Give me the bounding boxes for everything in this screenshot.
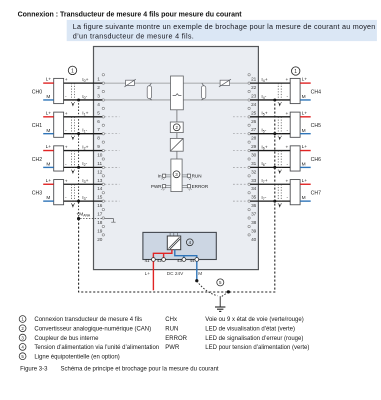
internal wire terminal 1 to MUX [104, 82, 170, 84]
wire to bus coupler [176, 151, 178, 159]
wire L+ CH3 [43, 178, 54, 184]
svg-text:CH0: CH0 [32, 89, 42, 95]
svg-text:1: 1 [294, 69, 297, 75]
svg-text:18: 18 [97, 220, 103, 225]
svg-text:In: In [158, 173, 162, 178]
svg-text:27: 27 [251, 127, 257, 132]
svg-text:LED de signalisation d’erreur: LED de signalisation d’erreur (rouge) [205, 336, 303, 342]
svg-text:3: 3 [97, 94, 100, 99]
svg-text:L+: L+ [302, 178, 308, 184]
shield arrow CH1 [72, 137, 74, 140]
svg-text:19: 19 [97, 228, 103, 233]
svg-text:14: 14 [97, 186, 103, 191]
svg-text:31: 31 [251, 161, 257, 166]
shield pair CH4 [278, 83, 281, 103]
attenuator/filter left [124, 79, 135, 87]
svg-text:43: 43 [177, 258, 182, 263]
svg-text:I6+: I6+ [261, 144, 267, 150]
svg-text:36: 36 [251, 203, 257, 208]
svg-text:M: M [302, 195, 306, 201]
wire L+ CH6 [300, 144, 311, 150]
svg-text:I7+: I7+ [261, 178, 267, 184]
svg-text:I5+: I5+ [261, 111, 267, 117]
junction node CH7 minus [273, 200, 276, 203]
node M tap [195, 279, 198, 282]
svg-text:I4-: I4- [261, 94, 266, 100]
wire M CH4 [300, 94, 311, 100]
svg-text:25: 25 [251, 110, 257, 115]
svg-text:CH2: CH2 [32, 157, 42, 163]
svg-text:30: 30 [251, 153, 257, 158]
svg-text:DC 24V: DC 24V [167, 271, 184, 276]
svg-text:I3+: I3+ [82, 178, 88, 184]
svg-text:I0-: I0- [82, 94, 87, 100]
wire I7+ to terminal 33 [250, 178, 290, 184]
svg-text:I0+: I0+ [82, 77, 88, 83]
wire to ADC [176, 133, 178, 139]
svg-text:I1-: I1- [82, 127, 87, 133]
svg-text:7: 7 [97, 127, 100, 132]
terminals 21-40 with pin numbers (right column) [251, 77, 257, 242]
svg-text:CH6: CH6 [311, 157, 321, 163]
junction node CH6 minus [273, 166, 276, 169]
shield pair CH6 [278, 151, 281, 171]
wire M CH1 [43, 128, 54, 134]
svg-text:L+: L+ [46, 178, 52, 184]
wire L+ CH1 [43, 110, 54, 116]
power unit pins [170, 233, 177, 236]
svg-text:44: 44 [190, 258, 195, 263]
svg-text:5: 5 [97, 110, 100, 115]
svg-text:RUN: RUN [192, 173, 202, 178]
svg-text:Connexion : Transducteur de me: Connexion : Transducteur de mesure 4 fil… [18, 12, 243, 19]
shield arrow CH6 [279, 171, 281, 174]
shield pair CH0 [71, 83, 74, 103]
input capacitor left [147, 83, 152, 100]
internal wire MUX to terminal 21 [183, 82, 248, 84]
svg-text:CH7: CH7 [311, 191, 321, 197]
legend [19, 316, 309, 361]
svg-text:24: 24 [251, 102, 257, 107]
svg-text:Figure 3-3: Figure 3-3 [20, 367, 48, 373]
transducer CH1 [32, 112, 68, 137]
svg-text:L+: L+ [302, 110, 308, 116]
svg-text:CH1: CH1 [32, 123, 42, 129]
wire I4- to terminal 23 [250, 94, 290, 100]
svg-text:42: 42 [157, 258, 162, 263]
svg-text:M: M [46, 195, 50, 201]
svg-text:8: 8 [97, 136, 100, 141]
svg-text:Coupleur de bus interne: Coupleur de bus interne [34, 336, 99, 342]
svg-text:Ligne équipotentielle (en opti: Ligne équipotentielle (en option) [34, 354, 119, 360]
junction node CH0 minus [77, 98, 80, 101]
wire I6+ to terminal 29 [250, 144, 290, 150]
wire I5+ to terminal 25 [250, 111, 290, 117]
svg-text:I7-: I7- [261, 195, 266, 201]
module box (analog input module) [94, 47, 259, 270]
junction node CH1 minus [77, 132, 80, 135]
svg-text:40: 40 [251, 237, 257, 242]
svg-text:d’un transducteur de mesure 4: d’un transducteur de mesure 4 fils. [73, 31, 194, 40]
svg-text:LED pour tension d’alimentatio: LED pour tension d’alimentation (verte) [205, 345, 309, 351]
svg-text:M: M [46, 94, 50, 100]
svg-text:I2+: I2+ [82, 144, 88, 150]
internal wire terminal 3 to MUX [104, 99, 170, 101]
internal dotted stubs rows 5-15 [105, 117, 120, 201]
shield pair CH1 [71, 117, 74, 137]
svg-text:16: 16 [97, 203, 103, 208]
junction node CH3 minus [77, 200, 80, 203]
svg-text:2: 2 [97, 85, 100, 90]
svg-text:L+: L+ [46, 77, 52, 83]
wire M CH5 [300, 128, 311, 134]
wire L+ internal (red) to terminals 41/42 [153, 250, 172, 258]
wire I3+ to terminal 13 [64, 178, 103, 184]
transducer CH7 [285, 179, 321, 204]
svg-text:L+: L+ [46, 144, 52, 150]
wire I0+ to terminal 1 [64, 77, 103, 83]
label DC 24V [145, 271, 203, 276]
wire I1+ to terminal 5 [64, 111, 103, 117]
wire I2- to terminal 11 [64, 161, 103, 167]
svg-text:CHx: CHx [165, 317, 177, 323]
svg-text:37: 37 [251, 212, 257, 217]
svg-text:23: 23 [251, 94, 257, 99]
node +M_ANA [76, 212, 102, 221]
svg-text:M: M [46, 162, 50, 168]
note highlight box [67, 20, 377, 41]
svg-text:CH4: CH4 [311, 89, 321, 95]
svg-text:I3-: I3- [82, 195, 87, 201]
shield pair CH2 [71, 151, 74, 171]
shield pair CH7 [278, 184, 281, 204]
wire L+ supply (red) [152, 261, 154, 290]
svg-text:26: 26 [251, 119, 257, 124]
transducer CH6 [285, 146, 321, 171]
svg-text:I5-: I5- [261, 127, 266, 133]
svg-text:ERROR: ERROR [165, 336, 187, 342]
svg-text:I2-: I2- [82, 161, 87, 167]
svg-text:20: 20 [97, 237, 103, 242]
svg-text:6: 6 [97, 119, 100, 124]
equipotential line (optional) left/bottom/right [79, 100, 275, 292]
node ground tap on equipotential [227, 290, 230, 293]
svg-text:CH5: CH5 [311, 123, 321, 129]
svg-text:1: 1 [71, 68, 74, 74]
LED RUN [182, 173, 201, 180]
power supply sub-box [143, 232, 216, 259]
shield pair CH5 [278, 117, 281, 137]
svg-text:4: 4 [97, 102, 100, 107]
transducer CH3 [32, 179, 68, 204]
svg-text:La figure suivante montre un e: La figure suivante montre un exemple de … [73, 22, 376, 31]
wire I7- to terminal 35 [250, 195, 290, 201]
power converter U4 [167, 236, 180, 250]
svg-text:I1+: I1+ [82, 111, 88, 117]
input capacitor right [201, 83, 205, 100]
svg-text:22: 22 [251, 85, 257, 90]
wire M CH3 [43, 195, 54, 201]
svg-text:11: 11 [97, 161, 102, 166]
wire I4+ to terminal 21 [250, 77, 290, 83]
circled 5 [217, 279, 224, 286]
wire MUX to ADC stage [176, 110, 178, 122]
shield arrow CH2 [72, 171, 74, 174]
shield pair CH3 [71, 184, 74, 204]
ground [215, 296, 225, 311]
terminals 1-20 with pin numbers (left column) [97, 77, 103, 242]
LED ERROR [182, 184, 209, 191]
svg-text:32: 32 [251, 169, 257, 174]
wire I6- to terminal 31 [250, 161, 290, 167]
svg-text:29: 29 [251, 144, 257, 149]
svg-text:1: 1 [97, 77, 100, 82]
wire M CH6 [300, 162, 311, 168]
svg-text:Convertisseur analogique-numér: Convertisseur analogique-numérique (CAN) [34, 327, 151, 333]
LED PWR [151, 184, 171, 191]
shield arrow CH0 [72, 103, 74, 106]
svg-text:PWR: PWR [165, 345, 180, 351]
svg-text:38: 38 [251, 220, 257, 225]
transducer CH4 [285, 78, 321, 103]
ground connection dashed [197, 281, 229, 296]
ADC box [170, 138, 183, 151]
svg-text:L+: L+ [302, 144, 308, 150]
svg-text:M: M [302, 94, 306, 100]
shield arrow CH4 [279, 103, 281, 106]
junction node CH5 minus [273, 132, 276, 135]
multiplexer/amplifier U1 [171, 76, 184, 110]
wire L+ CH0 [43, 77, 54, 83]
attenuator/filter right [219, 79, 231, 87]
shield arrow CH5 [279, 137, 281, 140]
svg-text:M: M [302, 128, 306, 134]
wire M CH2 [43, 162, 54, 168]
svg-text:ERROR: ERROR [192, 184, 209, 189]
svg-text:LED de visualisation d’état (v: LED de visualisation d’état (verte) [205, 327, 295, 333]
wire M CH7 [300, 195, 311, 201]
svg-text:Schéma de principe et brochage: Schéma de principe et brochage pour la m… [61, 367, 219, 373]
shield arrow CH3 [72, 205, 74, 208]
wire M CH0 [43, 94, 54, 100]
svg-text:39: 39 [251, 228, 257, 233]
internal dotted stubs rows 25-35 [233, 117, 248, 201]
svg-text:Tension d’alimentation via l’u: Tension d’alimentation via l’unité d’ali… [34, 345, 159, 351]
circled 1 left [68, 66, 76, 74]
wire L+ CH2 [43, 144, 54, 150]
svg-text:RUN: RUN [165, 327, 178, 333]
circled 1 right [292, 67, 300, 75]
shield terminal symbol row 18 [105, 219, 116, 223]
transducer CH0 [32, 78, 68, 103]
svg-text:17: 17 [97, 212, 103, 217]
svg-text:L+: L+ [46, 110, 52, 116]
transducer CH2 [32, 146, 68, 171]
transducer CH5 [285, 112, 321, 137]
terminals 41 42 43 44 [145, 258, 199, 263]
svg-text:Connexion transducteur de mesu: Connexion transducteur de mesure 4 fils [34, 317, 142, 323]
wire L+ CH5 [300, 110, 311, 116]
wire I5- to terminal 27 [250, 127, 290, 133]
svg-text:L+: L+ [302, 77, 308, 83]
internal wire MUX to terminal 23 [183, 99, 248, 101]
junction node CH2 minus [77, 166, 80, 169]
circled 4 [186, 239, 193, 246]
svg-text:Voie ou 9 x état de voie (vert: Voie ou 9 x état de voie (verte/rouge) [205, 317, 303, 323]
LED In (left) [158, 173, 171, 180]
svg-text:M: M [302, 162, 306, 168]
figure caption [20, 367, 219, 373]
wire I3- to terminal 15 [64, 195, 103, 201]
wire I2+ to terminal 9 [64, 144, 103, 150]
wire M internal (blue) to terminals 43/44 [175, 250, 197, 258]
wire L+ CH4 [300, 77, 311, 83]
svg-text:28: 28 [251, 136, 257, 141]
shield arrow CH7 [279, 205, 281, 208]
svg-text:I6-: I6- [261, 161, 266, 167]
svg-text:CH3: CH3 [32, 191, 42, 197]
block 2 (circled 2) [170, 122, 183, 133]
svg-text:34: 34 [251, 186, 257, 191]
wire M supply (blue) [196, 261, 198, 279]
svg-text:35: 35 [251, 195, 257, 200]
svg-text:I4+: I4+ [261, 77, 267, 83]
wire L+ CH7 [300, 178, 311, 184]
svg-text:M: M [198, 271, 202, 276]
svg-text:13: 13 [97, 178, 103, 183]
wire I0- to terminal 3 [64, 94, 103, 100]
svg-text:PWR: PWR [151, 184, 162, 189]
svg-text:33: 33 [251, 178, 257, 183]
svg-text:9: 9 [97, 144, 100, 149]
equipotential chain left (dots on I- wires) [78, 100, 80, 219]
svg-text:L+: L+ [145, 271, 151, 276]
svg-text:M: M [46, 128, 50, 134]
svg-text:21: 21 [251, 77, 257, 82]
svg-text:12: 12 [97, 169, 103, 174]
svg-text:15: 15 [97, 195, 103, 200]
svg-text:41: 41 [145, 258, 150, 263]
svg-text:10: 10 [97, 153, 103, 158]
wire I1- to terminal 7 [64, 127, 103, 133]
junction node CH4 minus [273, 98, 276, 101]
bus coupler U3 (circled 3) [171, 159, 182, 192]
